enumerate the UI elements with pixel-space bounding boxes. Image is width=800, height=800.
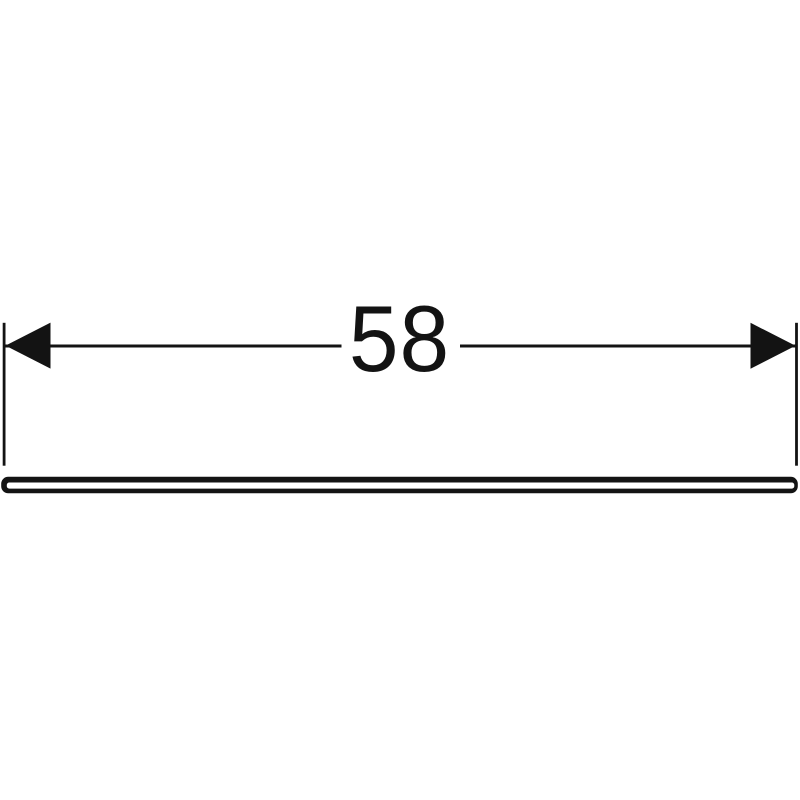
dimension line right segment (460, 345, 797, 348)
svg-text:58: 58 (349, 287, 450, 391)
arrowhead right (751, 323, 796, 369)
dimension line left segment (4, 345, 342, 348)
arrowhead left (6, 323, 51, 369)
extension line right (795, 323, 798, 466)
panel interior (7, 483, 795, 489)
panel outline (worktop side view) (1, 477, 798, 494)
extension line left (3, 323, 6, 466)
